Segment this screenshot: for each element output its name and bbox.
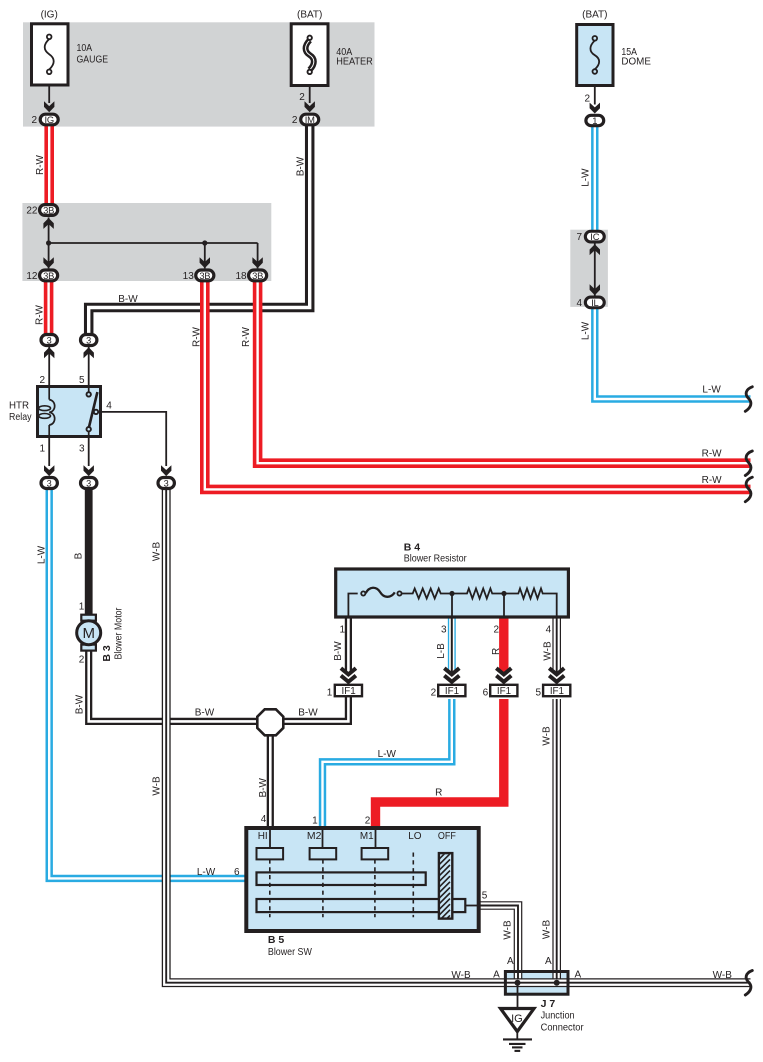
wire break squiggle L-W right edge [745, 387, 752, 412]
relay HTR box [38, 387, 101, 437]
svg-text:B-W: B-W [296, 156, 307, 176]
svg-text:B 3: B 3 [101, 645, 113, 662]
ground symbol IG triangle [501, 1009, 535, 1051]
svg-text:IG: IG [44, 114, 54, 125]
svg-text:W-B: W-B [503, 920, 514, 940]
svg-text:2: 2 [299, 92, 305, 103]
svg-text:B: B [74, 552, 85, 559]
svg-text:M1: M1 [360, 831, 374, 842]
gray band: IC/IL connector block [570, 230, 608, 307]
wire R: IF1 no.6 down-left to blower switch pin 2 [376, 699, 504, 829]
node: J7 junction dot A right [554, 980, 560, 986]
connector oval 3 above relay pin2 [41, 335, 57, 346]
svg-text:A: A [507, 956, 514, 967]
svg-text:W-B: W-B [152, 776, 163, 796]
wire: 3B junction bus horizontal [49, 242, 258, 244]
wire L-B: blower resistor pin 3 to IF1 arrow [448, 617, 456, 672]
wire R-W: 18-3B long run to right edge [258, 273, 751, 463]
svg-text:IF1: IF1 [550, 686, 564, 697]
wire W-B: blower resistor pin 4 to IF1 arrow [552, 617, 561, 672]
svg-text:L-W: L-W [378, 749, 397, 760]
svg-text:3: 3 [164, 478, 169, 488]
svg-text:4: 4 [106, 401, 112, 412]
wire W-B: third oval3 long run down, right to edge through J7 [166, 487, 750, 983]
J7 junction connector border [505, 972, 568, 995]
connector oval 18-3B [249, 270, 267, 281]
svg-text:B-W: B-W [195, 708, 215, 719]
svg-text:22: 22 [26, 206, 38, 217]
connector box IF1 no.6 [490, 685, 517, 697]
wire: relay pin 3 down [88, 435, 90, 466]
svg-text:5: 5 [79, 375, 85, 386]
wire L-W: IL down and right to edge [595, 300, 751, 399]
connector oval 13-3B [196, 270, 214, 281]
svg-text:2: 2 [365, 815, 371, 826]
svg-text:Blower SW: Blower SW [268, 947, 312, 958]
svg-text:4: 4 [261, 814, 267, 825]
svg-text:B-W: B-W [75, 694, 86, 714]
svg-text:B 5: B 5 [268, 934, 285, 946]
svg-text:IL: IL [591, 297, 598, 308]
wire B-W: blower resistor pin 1 to IF1 arrow [345, 617, 352, 672]
svg-text:2: 2 [584, 94, 590, 105]
svg-text:IF1: IF1 [342, 686, 356, 697]
connector box IF1 no.1 [335, 685, 362, 697]
wire B-W: octagon down to blower switch pin 4 [267, 734, 274, 829]
svg-text:R-W: R-W [702, 449, 723, 460]
svg-text:3: 3 [47, 335, 52, 345]
relay pin labels 2 5 1 3 4 [39, 375, 112, 454]
svg-text:R-W: R-W [35, 304, 46, 325]
svg-text:IM: IM [305, 114, 315, 125]
wire R: blower resistor pin 2 to IF1 arrow [499, 617, 508, 672]
svg-text:L-W: L-W [581, 321, 592, 340]
svg-text:3: 3 [86, 478, 91, 488]
svg-text:12: 12 [26, 271, 38, 282]
chevron arrow into IF1 no.6 [496, 668, 511, 682]
connector box IF1 no.2 [438, 685, 465, 697]
svg-text:W-B: W-B [451, 970, 471, 981]
svg-text:2: 2 [39, 375, 45, 386]
label HTR Relay [9, 401, 32, 424]
wire W-B: blower switch pin 5 down to J7 [479, 906, 518, 984]
svg-text:L-B: L-B [436, 643, 447, 659]
wire: 3B junction vertical 22 to 12 [48, 217, 50, 268]
fuse F1 10A GAUGE box [32, 24, 69, 85]
wire: HEATER fuse tail to arrow [309, 74, 311, 103]
svg-text:3: 3 [47, 478, 52, 488]
arrow into IG oval [44, 101, 54, 112]
svg-text:1: 1 [592, 115, 597, 126]
arrow up into left oval3 [44, 347, 54, 358]
wire: IC to IL connector link [594, 243, 596, 296]
svg-text:IC: IC [590, 231, 599, 242]
gray band: top fuse block [23, 22, 375, 126]
connector oval IG [40, 114, 58, 125]
wire W-B: IF1 no.5 long run down to J7 [552, 699, 561, 983]
connector oval 1 DOME [586, 115, 604, 126]
connector oval 12-3B [40, 270, 58, 281]
arrow down into oval3 below relay pin1 [44, 465, 54, 476]
arrow into IM oval [305, 101, 315, 112]
wire: oval3 to relay coil pin 2 [48, 347, 50, 388]
svg-text:3: 3 [441, 625, 447, 636]
connector oval IC [585, 231, 604, 242]
node: J7 junction dot A left [515, 980, 521, 986]
wire: 3B junction drop to 18 [257, 243, 259, 268]
wire: 3B junction drop to 13 [204, 243, 206, 268]
wire: oval3 to relay pin 5 [88, 347, 90, 388]
svg-text:2: 2 [31, 115, 37, 126]
svg-text:HTR: HTR [9, 401, 29, 412]
svg-text:HI: HI [258, 831, 268, 842]
wire B-W: octagon right to IF1 no.1 [282, 697, 349, 721]
svg-text:J 7: J 7 [541, 998, 556, 1010]
svg-text:R: R [491, 648, 502, 655]
label B3 Blower Motor [101, 607, 125, 662]
svg-text:R: R [435, 787, 442, 798]
svg-text:R-W: R-W [702, 475, 723, 486]
svg-text:3: 3 [79, 443, 85, 454]
wire break squiggle W-B bottom right edge [745, 971, 752, 996]
wire B-W: motor pin 2 down and right to octagon junction [89, 649, 259, 721]
svg-text:A: A [493, 970, 500, 981]
wire L-W: IF1 no.2 down-left to blower switch pin 1 [323, 699, 452, 829]
node: junction dot at 13-3B bus [202, 240, 207, 245]
svg-text:R-W: R-W [35, 154, 46, 175]
svg-text:B-W: B-W [298, 708, 318, 719]
svg-text:M2: M2 [307, 831, 322, 842]
wire L-W: left oval3 down and right to blower switch pin 6 [49, 487, 247, 878]
svg-text:OFF: OFF [438, 831, 456, 842]
connector oval 22-3B [40, 204, 58, 215]
fuse F3 15A DOME box [577, 25, 613, 86]
svg-text:4: 4 [576, 298, 582, 309]
chevron arrow into IF1 no.2 [444, 668, 459, 682]
svg-text:B 4: B 4 [404, 542, 421, 554]
wire: DOME fuse tail to arrow [594, 74, 596, 105]
wire: J7 to ground [517, 983, 519, 1009]
svg-text:W-B: W-B [542, 641, 553, 661]
arrow up into 22-3B oval [43, 218, 53, 229]
svg-text:2: 2 [494, 625, 500, 636]
blower motor B3 [77, 615, 101, 651]
svg-text:3B: 3B [43, 270, 54, 281]
svg-text:B-W: B-W [333, 641, 344, 661]
svg-text:L-W: L-W [197, 867, 216, 878]
connector oval 3 below relay pin1 [41, 478, 57, 489]
svg-text:IF1: IF1 [497, 686, 511, 697]
svg-text:Junction: Junction [541, 1010, 575, 1021]
svg-text:6: 6 [234, 867, 240, 878]
wire B: oval3 to blower motor pin 1 [85, 487, 93, 616]
gray band: 3B junction block [22, 203, 271, 281]
svg-text:L-W: L-W [37, 545, 48, 564]
fuse F2 40A HEATER fusible link box [291, 24, 328, 86]
arrow into 12-3B oval [43, 257, 53, 268]
blower switch B5 box [246, 828, 478, 933]
wire break squiggle R-W lower right edge [745, 477, 752, 502]
svg-text:1: 1 [312, 815, 318, 826]
svg-text:L-W: L-W [581, 168, 592, 187]
arrow down into oval3 from relay pin4 [161, 465, 171, 476]
label 10A GAUGE [77, 43, 109, 66]
arrow into 13-3B oval [200, 257, 210, 268]
arrow up into second oval3 [84, 347, 94, 358]
IF1 pin number labels [327, 688, 542, 699]
svg-text:2: 2 [79, 655, 85, 666]
connector oval 3 below relay pin3 [81, 478, 97, 489]
wire L-W: DOME oval 1 down to IC [591, 124, 598, 233]
svg-text:LO: LO [408, 831, 422, 842]
switch position labels [258, 831, 456, 842]
svg-text:L-W: L-W [702, 384, 721, 395]
svg-text:Blower Motor: Blower Motor [114, 607, 125, 660]
svg-text:B-W: B-W [118, 294, 138, 305]
svg-text:IF1: IF1 [445, 686, 459, 697]
label 40A HEATER [336, 47, 373, 68]
label 15A DOME [621, 47, 651, 68]
svg-text:DOME: DOME [621, 57, 651, 68]
svg-text:HEATER: HEATER [336, 57, 373, 68]
svg-text:1: 1 [79, 602, 85, 613]
svg-text:4: 4 [546, 625, 552, 636]
motor pin labels 1 2 [79, 602, 85, 666]
svg-text:3B: 3B [252, 270, 263, 281]
chevron arrow into IF1 no.5 [549, 668, 564, 682]
arrow into DOME oval 1 [590, 103, 600, 114]
connector oval 3 above relay pin5 [81, 335, 97, 346]
svg-text:2: 2 [431, 688, 437, 699]
svg-text:W-B: W-B [542, 920, 553, 940]
svg-text:3B: 3B [199, 270, 210, 281]
svg-text:18: 18 [235, 271, 247, 282]
chevron arrow into IF1 no.1 [341, 668, 356, 682]
blower resistor B4 box [336, 569, 569, 617]
svg-text:Connector: Connector [541, 1023, 585, 1034]
svg-text:5: 5 [482, 891, 488, 902]
wire break squiggle R-W upper right edge [745, 451, 752, 476]
switch pin labels 6 4 1 2 5 [234, 814, 488, 902]
wire R-W: 12-3B to oval3 [44, 273, 54, 336]
connector box IF1 no.5 [543, 685, 570, 697]
svg-text:IG: IG [511, 1013, 523, 1025]
svg-text:13: 13 [183, 271, 195, 282]
wire: GAUGE fuse tail to arrow [48, 74, 50, 103]
label B4 Blower Resistor [404, 542, 468, 565]
svg-text:W-B: W-B [542, 726, 553, 746]
J7 pin A labels [493, 956, 581, 981]
svg-text:Relay: Relay [9, 412, 32, 423]
arrow into 18-3B oval [252, 257, 262, 268]
svg-text:Blower Resistor: Blower Resistor [404, 554, 468, 565]
svg-text:R-W: R-W [241, 326, 252, 347]
svg-text:6: 6 [483, 688, 489, 699]
svg-text:3: 3 [86, 335, 91, 345]
arrow down into oval3 below relay pin3 [84, 465, 94, 476]
arrow down into IL oval [590, 284, 600, 295]
label J7 Junction Connector [541, 998, 585, 1034]
svg-text:M: M [82, 625, 95, 642]
svg-text:R-W: R-W [192, 326, 203, 347]
resistor pin labels 1 3 2 4 [339, 625, 551, 636]
svg-text:(IG): (IG) [41, 10, 58, 21]
svg-text:1: 1 [339, 625, 345, 636]
wire: relay pin 4 to third oval3 [98, 412, 166, 466]
svg-text:3B: 3B [43, 204, 54, 215]
octagon junction J [257, 709, 283, 735]
svg-text:(BAT): (BAT) [297, 10, 322, 21]
node: junction dot at 22-3B bus [46, 240, 51, 245]
label B5 Blower SW [268, 934, 312, 958]
svg-text:5: 5 [536, 688, 542, 699]
svg-text:A: A [545, 956, 552, 967]
connector oval 3 below relay pin4 [158, 478, 174, 489]
connector oval IM [301, 114, 319, 125]
wire R-W: IG oval to 22-3B [44, 124, 54, 205]
svg-text:W-B: W-B [713, 970, 733, 981]
svg-text:GAUGE: GAUGE [77, 55, 109, 66]
svg-text:10A: 10A [77, 43, 93, 54]
wire: relay pin 1 down [48, 435, 50, 466]
arrow up into IC oval [590, 244, 600, 255]
J7 junction connector box fill [504, 970, 570, 996]
svg-text:W-B: W-B [152, 542, 163, 562]
svg-text:2: 2 [292, 115, 298, 126]
svg-text:1: 1 [39, 443, 45, 454]
svg-text:B-W: B-W [258, 777, 269, 797]
svg-text:(BAT): (BAT) [582, 10, 607, 21]
svg-text:A: A [575, 970, 582, 981]
connector oval IL [585, 297, 604, 308]
svg-text:1: 1 [327, 688, 333, 699]
wire B-W: 40A IM feed down-left to relay oval [89, 124, 310, 336]
wire R-W: 13-3B long run to right edge [205, 273, 751, 489]
svg-text:7: 7 [576, 232, 582, 243]
